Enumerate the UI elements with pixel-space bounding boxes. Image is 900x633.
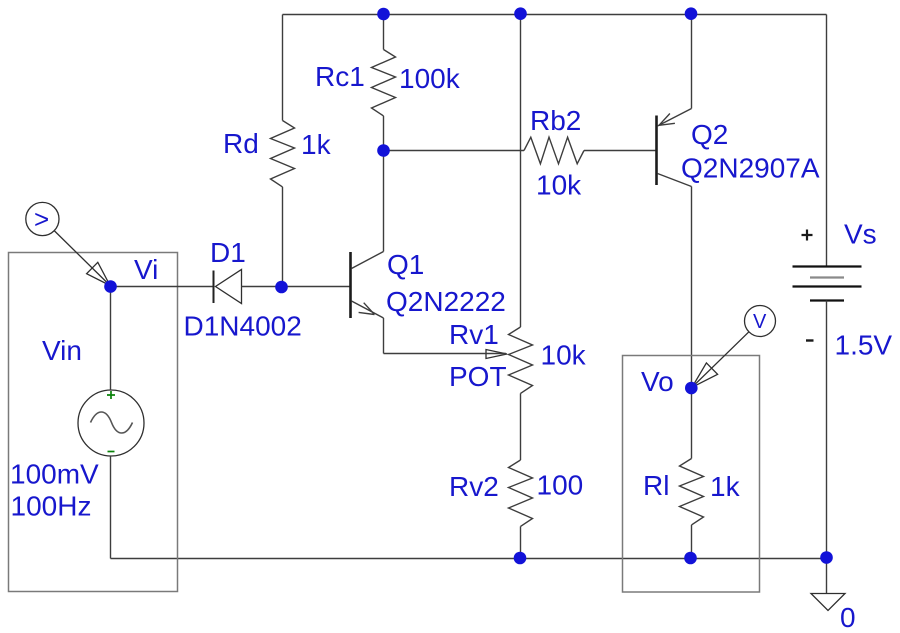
svg-text:>: > (34, 204, 49, 234)
junction Rc1 bottom / Q1 collector (377, 144, 390, 157)
wire Q1 collector vertical (383, 151, 385, 252)
svg-text:Rd: Rd (223, 128, 259, 159)
potentiometer Rv1 (509, 327, 533, 393)
junction node Vi (104, 280, 117, 293)
resistor Rb2 (524, 137, 584, 164)
wire ground stem (826, 559, 828, 594)
junction at Rc1 top (377, 8, 390, 21)
wire Rv2 bottom segment (520, 526, 522, 558)
svg-text:100: 100 (537, 470, 584, 501)
svg-text:Q2N2907A: Q2N2907A (681, 153, 820, 184)
wiper arrow of Rv1 (486, 350, 507, 359)
diode D1 (214, 270, 242, 304)
svg-text:100Hz: 100Hz (11, 491, 92, 522)
junction ground node (820, 551, 833, 564)
svg-text:Vin: Vin (42, 335, 82, 366)
wire bottom bus (111, 558, 827, 560)
resistor Rl (680, 459, 704, 525)
svg-text:Vi: Vi (134, 254, 158, 285)
svg-text:10k: 10k (541, 340, 587, 371)
svg-text:V: V (753, 311, 767, 333)
wire source to bottom bus (110, 456, 112, 559)
wire Rb2 to Q2 base (584, 150, 656, 152)
svg-text:Rv1: Rv1 (449, 319, 499, 350)
svg-text:POT: POT (449, 361, 507, 392)
svg-text:1k: 1k (710, 471, 741, 502)
svg-text:100mV: 100mV (10, 459, 99, 490)
wire top bus (283, 14, 827, 16)
svg-text:Q2N2222: Q2N2222 (386, 286, 506, 317)
wire Rc1 bottom segment (383, 116, 385, 151)
wire Rc1 top segment (383, 15, 385, 50)
svg-text:0: 0 (840, 602, 856, 633)
svg-text:1.5V: 1.5V (835, 330, 893, 361)
wire Rd bottom segment (282, 187, 284, 287)
resistor Rc1 (372, 50, 396, 116)
probe marker at Vi (26, 202, 110, 285)
box Vo/Rl load block (623, 356, 760, 593)
svg-text:100k: 100k (399, 63, 461, 94)
wire Vi node down to source (110, 287, 112, 391)
svg-text:Q2: Q2 (691, 119, 728, 150)
wire Q1 emitter down (383, 318, 385, 354)
source Vin sine symbol (78, 390, 144, 456)
resistor Rv2 (509, 460, 533, 526)
resistor Rd (271, 121, 295, 187)
wire right bus bottom (826, 301, 828, 559)
wire right bus top (826, 15, 828, 267)
probe marker at Vo (692, 306, 776, 388)
svg-text:Rb2: Rb2 (530, 105, 581, 136)
wire Vi node to diode (111, 286, 214, 288)
junction node Vo (685, 382, 698, 395)
box Vin source block (9, 253, 178, 592)
junction at Q2 emitter top (685, 7, 698, 20)
svg-text:1k: 1k (301, 129, 332, 160)
wire Q1 emitter to wiper (384, 353, 507, 355)
svg-text:10k: 10k (536, 170, 582, 201)
svg-text:D1N4002: D1N4002 (184, 311, 302, 342)
svg-text:Rc1: Rc1 (315, 61, 365, 92)
wire Q2 emitter vertical (691, 15, 693, 109)
wire Rd top segment (282, 15, 284, 121)
junction Rl bottom (684, 552, 697, 565)
svg-text:Rv2: Rv2 (449, 471, 499, 502)
svg-text:D1: D1 (210, 237, 246, 268)
wire Rv1 to Rv2 (520, 393, 522, 460)
wire Rl bottom segment (691, 525, 693, 559)
wire diode to Q1 base (242, 286, 351, 288)
transistor Q2 (657, 109, 692, 187)
wire Q2 collector to Vo and Rl (691, 187, 693, 459)
ground symbol (811, 594, 845, 611)
battery Vs (793, 230, 862, 341)
svg-text:Vo: Vo (641, 366, 674, 397)
svg-text:Rl: Rl (643, 470, 669, 501)
transistor Q1 (351, 252, 384, 319)
wire base row to Rb2 (384, 150, 525, 152)
wire Rv1 top segment (520, 15, 522, 328)
node Vi (134, 254, 158, 285)
svg-text:Vs: Vs (844, 219, 877, 250)
junction at Rv1 top (514, 7, 527, 20)
junction Rv2 bottom (514, 552, 527, 565)
svg-text:Q1: Q1 (387, 249, 424, 280)
junction diode cathode node (275, 281, 288, 294)
